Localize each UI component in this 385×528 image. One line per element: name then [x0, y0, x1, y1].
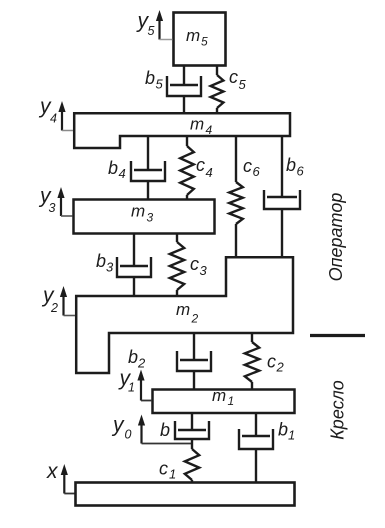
svg-text:y: y — [111, 414, 125, 437]
label c2 value — [267, 352, 285, 375]
svg-text:x: x — [46, 460, 59, 483]
svg-text:3: 3 — [147, 211, 154, 225]
svg-text:Кресло: Кресло — [328, 380, 348, 440]
svg-text:c: c — [196, 155, 205, 175]
svg-text:b: b — [128, 347, 138, 367]
label b4 value — [108, 158, 126, 181]
arrow y2 displacement — [60, 286, 75, 316]
mass m5 — [174, 13, 226, 66]
label b6 value — [286, 155, 305, 179]
label y2 — [41, 284, 58, 315]
arrow y3 displacement — [57, 187, 72, 216]
svg-text:3: 3 — [49, 201, 56, 215]
svg-text:4: 4 — [50, 112, 57, 126]
svg-text:3: 3 — [106, 260, 114, 275]
svg-text:5: 5 — [239, 77, 247, 92]
label y5 — [136, 10, 155, 39]
svg-text:b: b — [108, 158, 118, 178]
damper b2 — [177, 333, 211, 389]
svg-text:3: 3 — [200, 263, 208, 278]
svg-text:5: 5 — [148, 24, 155, 38]
svg-text:m: m — [190, 115, 204, 134]
svg-text:2: 2 — [50, 301, 58, 315]
divider line between operator and seat sections — [310, 334, 365, 337]
damper b4 — [131, 136, 165, 199]
svg-text:4: 4 — [119, 166, 126, 181]
svg-text:c: c — [243, 156, 252, 176]
spring c4 — [180, 136, 194, 199]
svg-text:b: b — [278, 420, 288, 440]
svg-text:4: 4 — [206, 165, 213, 180]
label b1 value — [278, 420, 295, 443]
mass m4 — [74, 113, 290, 148]
label m3 value — [131, 202, 154, 225]
svg-text:c: c — [229, 67, 238, 87]
svg-text:2: 2 — [137, 356, 146, 371]
svg-text:Оператор: Оператор — [326, 193, 346, 282]
arrow y1 displacement — [137, 370, 152, 401]
arrow y5 displacement — [156, 10, 173, 40]
arrow y0 displacement — [138, 415, 191, 444]
label b5 value — [145, 68, 164, 92]
spring c1 — [185, 449, 199, 482]
damper b3 — [117, 233, 151, 295]
spring c2 — [245, 333, 259, 389]
svg-text:b: b — [160, 420, 170, 440]
svg-text:0: 0 — [125, 428, 132, 442]
svg-text:4: 4 — [206, 123, 213, 137]
svg-text:6: 6 — [297, 164, 305, 179]
svg-text:b: b — [145, 68, 155, 88]
svg-text:5: 5 — [201, 35, 208, 49]
svg-text:c: c — [267, 352, 276, 372]
spring c3 — [170, 233, 184, 295]
svg-text:c: c — [190, 254, 199, 274]
svg-text:5: 5 — [156, 77, 164, 92]
label c6 value — [243, 156, 261, 179]
label y4 — [38, 95, 57, 126]
svg-text:6: 6 — [253, 164, 261, 179]
label b value — [160, 420, 170, 440]
svg-text:2: 2 — [276, 360, 285, 375]
label m1 value — [212, 386, 234, 408]
label y1 — [118, 367, 135, 395]
svg-text:m: m — [186, 26, 200, 45]
base platform — [76, 483, 295, 506]
label y3 — [38, 185, 56, 216]
svg-text:2: 2 — [191, 312, 199, 326]
damper b5 — [167, 66, 201, 112]
damper b6 — [264, 136, 300, 257]
label b3 value — [96, 251, 114, 275]
spring c6 — [229, 136, 243, 257]
label c1 value — [159, 459, 176, 482]
label c3 value — [190, 254, 208, 278]
label m5 value — [186, 26, 208, 49]
damper b damper — [175, 413, 209, 449]
mass m2 — [76, 257, 293, 373]
arrow y4 displacement — [58, 101, 73, 131]
damper b1 — [239, 413, 273, 482]
svg-text:m: m — [212, 386, 226, 405]
label c4 value — [196, 155, 213, 180]
svg-text:b: b — [96, 251, 106, 271]
mass m3 — [74, 200, 215, 234]
svg-text:1: 1 — [169, 467, 176, 482]
svg-text:c: c — [159, 459, 168, 479]
arrow x base displacement — [61, 464, 76, 494]
svg-text:m: m — [176, 300, 190, 319]
label b2 value — [128, 347, 146, 371]
mass m1 — [153, 390, 295, 414]
svg-text:m: m — [131, 202, 145, 221]
svg-text:1: 1 — [128, 381, 135, 395]
label m2 value — [176, 300, 199, 326]
svg-text:1: 1 — [228, 394, 235, 408]
svg-text:b: b — [286, 155, 296, 175]
label c5 value — [229, 67, 247, 92]
svg-text:1: 1 — [288, 428, 295, 443]
spring c5 — [211, 66, 224, 112]
label y0 — [111, 414, 132, 442]
label m4 value — [190, 115, 213, 138]
